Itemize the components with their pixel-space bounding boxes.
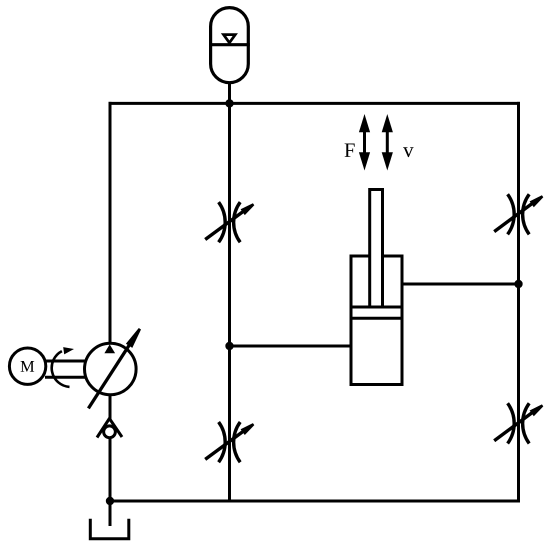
node junction center line / cap-side port xyxy=(225,342,233,350)
cylinder body xyxy=(351,256,402,385)
throttle valve V2 arrowhead xyxy=(241,423,255,435)
wire right vertical xyxy=(517,102,520,503)
rotation arrow head xyxy=(63,347,74,354)
pump circle P1 xyxy=(85,343,137,395)
cylinder piston rod xyxy=(370,190,383,308)
pump variable displacement arrowhead xyxy=(126,328,141,348)
force arrow F (double headed) xyxy=(359,114,370,171)
accumulator gas triangle xyxy=(224,35,236,43)
cylinder piston top line xyxy=(351,306,402,309)
tank symbol xyxy=(90,519,129,539)
wire tank stem xyxy=(109,501,112,526)
shaft upper line xyxy=(45,360,85,363)
shaft lower line xyxy=(45,376,85,379)
wire cylinder cap-side port to center line xyxy=(230,345,352,348)
wire pump bottom to check valve xyxy=(109,394,112,419)
label v xyxy=(403,147,414,157)
wire center vertical xyxy=(228,102,231,503)
check valve seat xyxy=(97,419,122,438)
cylinder piston bottom line xyxy=(351,317,402,320)
throttle valve V1 (left-top) xyxy=(205,202,243,242)
throttle valve V4 arrowhead xyxy=(530,404,544,416)
node junction bottom bus / tank xyxy=(106,497,114,505)
node junction accumulator/top bus xyxy=(225,99,233,107)
wire top bus xyxy=(109,102,521,105)
wire accumulator stem xyxy=(228,84,231,103)
throttle valve V1 arrowhead xyxy=(241,203,255,215)
velocity arrow v (double headed) xyxy=(382,114,393,171)
check valve ball xyxy=(104,426,116,438)
pump variable displacement diagonal xyxy=(88,339,133,409)
wire check valve to bottom junction xyxy=(109,439,112,502)
accumulator body xyxy=(211,8,249,83)
throttle valve V3 (right-top) xyxy=(494,194,532,234)
motor M circle xyxy=(9,348,45,384)
motor label M xyxy=(21,361,35,372)
accumulator gas/fluid separator line xyxy=(209,43,250,46)
rotation arrow arc xyxy=(52,351,70,387)
wire left vertical upper (bus to pump) xyxy=(109,102,112,344)
throttle valve V3 arrowhead xyxy=(530,195,544,207)
pump flow triangle (up) xyxy=(104,344,115,353)
node junction right bus / rod-side port xyxy=(514,280,522,288)
wire bottom bus xyxy=(109,500,521,503)
label F xyxy=(345,143,355,156)
throttle valve V2 (left-bottom) xyxy=(205,422,243,462)
throttle valve V4 (right-bottom) xyxy=(494,403,532,443)
wire cylinder rod-side port to right bus xyxy=(402,283,519,286)
